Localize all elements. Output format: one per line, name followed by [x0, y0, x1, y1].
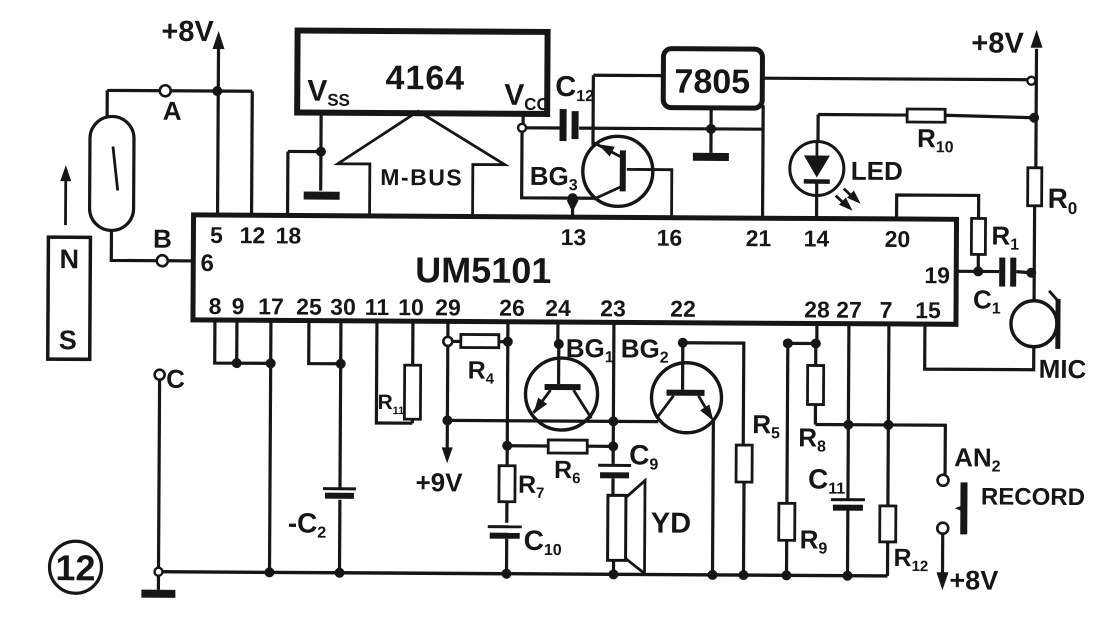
- svg-text:12: 12: [55, 547, 95, 588]
- svg-text:24: 24: [545, 295, 571, 321]
- svg-text:16: 16: [657, 225, 683, 251]
- svg-text:5: 5: [210, 222, 223, 248]
- svg-text:LED: LED: [851, 156, 903, 186]
- svg-text:28: 28: [804, 296, 830, 322]
- svg-text:B: B: [153, 224, 172, 254]
- svg-text:+8V: +8V: [971, 27, 1024, 59]
- svg-text:N: N: [59, 244, 79, 274]
- svg-text:6: 6: [201, 250, 215, 277]
- svg-text:11: 11: [365, 294, 390, 320]
- svg-text:29: 29: [435, 294, 461, 320]
- svg-text:+8V: +8V: [949, 565, 998, 595]
- svg-text:+9V: +9V: [415, 467, 463, 497]
- svg-text:25: 25: [296, 294, 322, 320]
- svg-text:A: A: [163, 96, 182, 126]
- svg-text:C: C: [166, 364, 185, 394]
- svg-text:15: 15: [915, 297, 941, 323]
- svg-text:10: 10: [398, 294, 424, 320]
- svg-text:RECORD: RECORD: [981, 483, 1085, 511]
- svg-text:9: 9: [232, 293, 245, 319]
- svg-text:12: 12: [240, 222, 266, 248]
- svg-text:14: 14: [804, 225, 830, 251]
- svg-text:26: 26: [499, 295, 525, 321]
- svg-text:19: 19: [924, 262, 950, 288]
- svg-text:8: 8: [209, 293, 222, 319]
- svg-text:4164: 4164: [385, 59, 465, 97]
- svg-text:UM5101: UM5101: [415, 249, 551, 291]
- svg-text:+8V: +8V: [161, 16, 214, 48]
- svg-text:7: 7: [880, 297, 893, 323]
- svg-text:MIC: MIC: [1039, 354, 1087, 384]
- svg-text:22: 22: [670, 296, 696, 322]
- svg-text:7805: 7805: [674, 63, 750, 101]
- svg-text:S: S: [59, 325, 77, 355]
- svg-text:YD: YD: [651, 508, 691, 540]
- svg-text:M-BUS: M-BUS: [380, 164, 463, 190]
- svg-text:13: 13: [561, 224, 587, 250]
- svg-text:18: 18: [276, 222, 302, 248]
- svg-text:30: 30: [330, 294, 356, 320]
- svg-text:17: 17: [258, 293, 284, 319]
- svg-text:23: 23: [600, 295, 626, 321]
- svg-text:21: 21: [746, 225, 772, 251]
- svg-text:27: 27: [836, 297, 862, 323]
- svg-text:20: 20: [885, 226, 911, 252]
